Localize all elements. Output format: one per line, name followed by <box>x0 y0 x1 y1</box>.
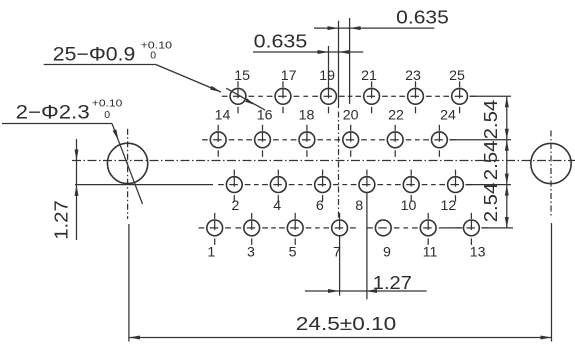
pin 7 hole <box>323 213 355 296</box>
svg-text:17: 17 <box>281 68 297 84</box>
svg-text:+0.10: +0.10 <box>92 97 123 109</box>
label 25-dia0.9 with leader <box>44 40 221 92</box>
pin number 12 <box>441 198 457 214</box>
pin 15 hole <box>222 81 254 113</box>
svg-text:1.27: 1.27 <box>373 272 412 293</box>
svg-text:15: 15 <box>234 68 250 84</box>
svg-text:0: 0 <box>104 109 110 121</box>
pin 9 hole <box>367 220 399 236</box>
vertical centerline connector <box>338 112 340 220</box>
extension line pin 25 right <box>470 95 511 97</box>
pin 20 hole <box>335 125 367 157</box>
svg-text:18: 18 <box>299 108 315 124</box>
svg-text:5: 5 <box>289 245 297 261</box>
pin number 8 <box>355 198 363 214</box>
pin 10 hole <box>395 170 427 202</box>
pin 1 hole <box>199 213 231 245</box>
dimension 0.635 upper <box>314 7 449 31</box>
pin number 5 <box>289 245 297 261</box>
svg-text:11: 11 <box>423 245 438 261</box>
svg-text:25−Φ0.9: 25−Φ0.9 <box>53 44 136 65</box>
pin number 21 <box>361 68 377 84</box>
svg-text:8: 8 <box>355 198 363 214</box>
pin number 10 <box>401 198 417 214</box>
pin 6 hole <box>306 170 338 202</box>
extension line pin 12 right <box>466 184 512 186</box>
svg-text:13: 13 <box>470 245 486 261</box>
svg-text:14: 14 <box>215 108 231 124</box>
svg-text:23: 23 <box>405 68 421 84</box>
row 3 centerline dashes <box>254 184 436 186</box>
pin 21 hole <box>355 81 387 113</box>
svg-text:7: 7 <box>333 245 341 261</box>
svg-text:2.54: 2.54 <box>480 100 501 140</box>
svg-text:3: 3 <box>247 245 255 261</box>
dimension 1.27 left side <box>52 139 79 240</box>
extension line pin 24 right <box>449 139 511 141</box>
horizontal centerline <box>72 160 575 162</box>
row 4 centerline dashes <box>271 227 408 229</box>
pin number 13 <box>470 245 486 261</box>
pin 3 hole <box>236 213 268 245</box>
dimension chain 2.54 right side <box>480 96 509 228</box>
pin number 16 <box>257 108 273 124</box>
extension line pin 20 column <box>349 18 351 104</box>
dimension 0.635 lower <box>253 31 363 55</box>
pin 13 hole <box>455 213 487 245</box>
pin 13 centerline dash <box>444 227 463 229</box>
svg-text:0.635: 0.635 <box>396 7 449 28</box>
svg-text:24: 24 <box>440 108 456 124</box>
pin 2 hole <box>218 170 250 202</box>
svg-text:6: 6 <box>316 198 324 214</box>
pin number 11 <box>423 245 438 261</box>
pin number 9 <box>383 245 391 261</box>
leader slash through pin 15 <box>226 88 265 110</box>
svg-text:1.27: 1.27 <box>52 200 72 240</box>
dimension 24.5 overall with extension lines <box>129 223 552 342</box>
pin number 14 <box>215 108 231 124</box>
svg-text:9: 9 <box>383 245 391 261</box>
pin number 4 <box>273 198 281 214</box>
pin number 23 <box>405 68 421 84</box>
svg-text:24.5±0.10: 24.5±0.10 <box>296 313 396 334</box>
svg-text:16: 16 <box>257 108 273 124</box>
svg-text:4: 4 <box>273 198 281 214</box>
pin number 1 <box>207 245 215 261</box>
pin number 7 <box>333 245 341 261</box>
svg-text:2−Φ2.3: 2−Φ2.3 <box>16 103 90 124</box>
extension line row 3 to left <box>75 184 213 186</box>
pin 19 hole <box>312 46 344 113</box>
pin 17 hole <box>267 81 299 113</box>
svg-text:2: 2 <box>232 198 240 214</box>
vertical centerline connector upper <box>338 21 340 108</box>
svg-text:2.54: 2.54 <box>480 141 501 181</box>
pin number 24 <box>440 108 456 124</box>
pin 25 hole <box>443 81 475 113</box>
svg-text:22: 22 <box>388 108 404 124</box>
pin number 2 <box>232 198 240 214</box>
svg-text:1: 1 <box>207 245 215 261</box>
svg-text:0.635: 0.635 <box>254 31 308 52</box>
pin number 25 <box>449 68 465 84</box>
vertical centerline right hole <box>550 131 552 219</box>
svg-text:0: 0 <box>150 50 156 62</box>
pin 11 hole <box>412 213 444 245</box>
mounting hole left <box>107 143 147 183</box>
svg-text:21: 21 <box>361 68 377 84</box>
pin 5 hole <box>279 213 311 245</box>
dimension 1.27 bottom <box>305 272 427 293</box>
pin number 15 <box>234 68 250 84</box>
pin number 6 <box>316 198 324 214</box>
pin number 20 <box>343 108 359 124</box>
svg-text:19: 19 <box>319 68 335 84</box>
pin 16 hole <box>246 125 278 157</box>
svg-text:25: 25 <box>449 68 465 84</box>
pin 14 hole <box>202 125 234 157</box>
label 2-dia2.3 with leader slash through left hole <box>2 97 143 204</box>
svg-text:+0.10: +0.10 <box>141 40 173 52</box>
pin 24 hole <box>423 125 455 157</box>
pin number 17 <box>281 68 297 84</box>
pin number 18 <box>299 108 315 124</box>
pin 18 hole <box>291 125 323 157</box>
extension line pin 13 right <box>481 227 513 229</box>
svg-text:20: 20 <box>343 108 359 124</box>
svg-text:10: 10 <box>401 198 417 214</box>
mounting hole right <box>531 143 571 183</box>
pin number 22 <box>388 108 404 124</box>
pin 23 hole <box>399 81 431 113</box>
pin 12 hole <box>439 170 471 202</box>
row 2 centerline dashes <box>238 139 420 141</box>
vertical centerline left hole <box>127 129 129 219</box>
pin 4 hole <box>262 170 294 202</box>
pin 8 hole <box>351 170 383 300</box>
svg-text:2.54: 2.54 <box>480 183 501 223</box>
pin number 3 <box>247 245 255 261</box>
row 1 centerline dashes <box>258 95 440 97</box>
pin number 19 <box>319 68 335 84</box>
svg-text:12: 12 <box>441 198 457 214</box>
pin 22 hole <box>379 125 411 157</box>
